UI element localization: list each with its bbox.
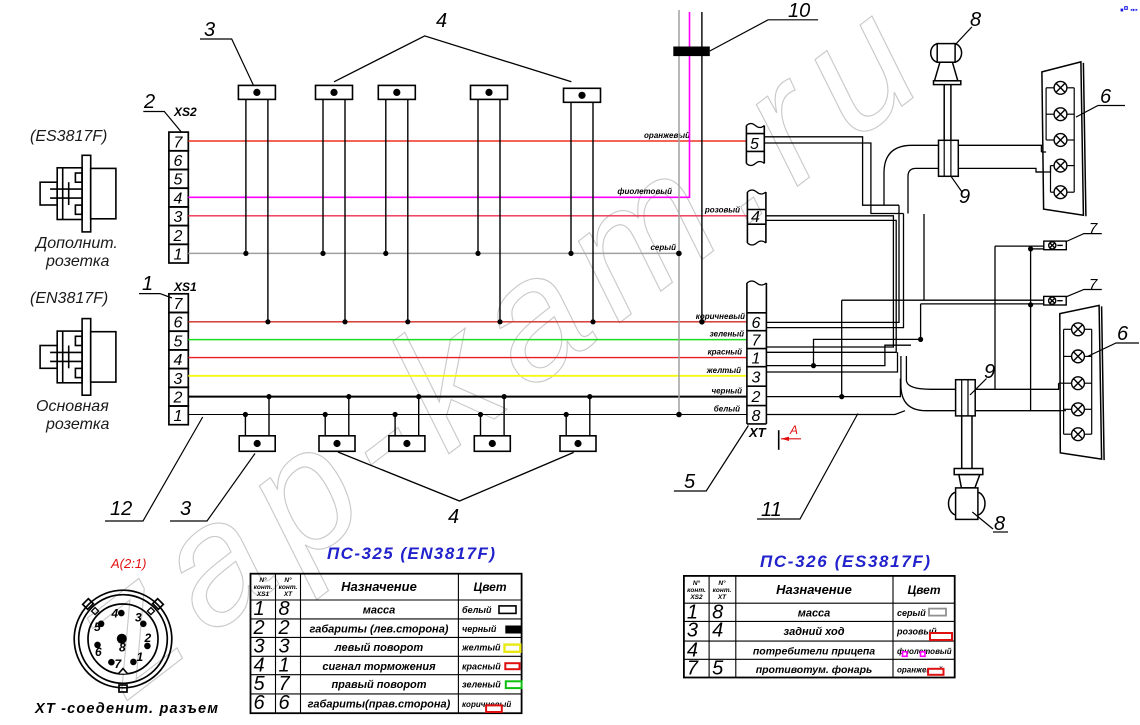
svg-text:конт.: конт. (279, 584, 298, 591)
leader 4 (top clamps V) (334, 36, 571, 82)
svg-text:5: 5 (174, 333, 183, 350)
svg-text:8: 8 (119, 641, 126, 655)
lamp item 7 (upper) (1044, 241, 1067, 250)
clamp item 4 (bottom row 3) (389, 394, 425, 451)
svg-text:красный: красный (708, 348, 743, 357)
lamp panel item 6 (bottom) (1060, 305, 1104, 460)
svg-text:черный: черный (462, 624, 497, 634)
leader 12 (to XS1 bottom) (105, 417, 203, 521)
svg-text:2: 2 (144, 631, 152, 645)
svg-text:черный: черный (711, 387, 742, 396)
svg-text:7: 7 (687, 658, 699, 680)
logo mark (blue) (1121, 6, 1138, 11)
svg-text:3: 3 (180, 498, 191, 520)
svg-text:фиолетовый: фиолетовый (617, 187, 672, 196)
svg-text:6: 6 (1117, 323, 1129, 345)
connector XT block (747, 283, 767, 424)
svg-text:противотум. фонарь: противотум. фонарь (756, 664, 873, 676)
svg-text:XS2: XS2 (689, 594, 703, 601)
svg-text:11: 11 (761, 499, 782, 521)
svg-text:3: 3 (174, 209, 183, 226)
svg-text:4: 4 (751, 209, 760, 226)
svg-text:оранжевый: оранжевый (644, 131, 690, 140)
svg-text:белый: белый (462, 605, 492, 615)
svg-text:7: 7 (1089, 220, 1098, 237)
svg-text:XT: XT (748, 425, 767, 440)
svg-text:желтый: желтый (706, 366, 741, 375)
socket icon ES3817F (Дополнит. розетка) (40, 155, 116, 232)
svg-text:1: 1 (142, 273, 153, 295)
svg-text:6: 6 (254, 692, 266, 714)
svg-text:масса: масса (798, 608, 831, 620)
svg-text:9: 9 (984, 361, 995, 383)
wire item9-top horizontals (912, 144, 939, 146)
clamp item 3 (top row 1) (238, 85, 275, 324)
svg-text:6: 6 (1100, 86, 1112, 108)
svg-text:3: 3 (204, 19, 215, 41)
svg-text:XS2: XS2 (173, 105, 197, 119)
wire lamp7-lower link (842, 299, 1044, 301)
svg-text:конт.: конт. (713, 587, 732, 594)
svg-text:Назначение: Назначение (341, 579, 417, 594)
clamp item 4 (top row 4) (471, 85, 508, 324)
svg-text:8: 8 (994, 513, 1005, 535)
svg-text:габариты (лев.сторона): габариты (лев.сторона) (310, 623, 449, 635)
svg-text:Основная: Основная (36, 398, 109, 415)
connector XS1 (169, 294, 188, 425)
svg-text:зеленый: зеленый (462, 680, 501, 690)
svg-text:Цвет: Цвет (473, 580, 506, 594)
svg-text:XT -соеденит. разъем: XT -соеденит. разъем (34, 701, 218, 717)
wire red (красный) XS1.4 to XT.1 (188, 357, 747, 359)
svg-text:N°: N° (284, 576, 292, 584)
clamp item 4 (top row 5) (564, 88, 601, 324)
svg-text:1: 1 (174, 247, 183, 264)
svg-text:5: 5 (712, 658, 724, 680)
leader 3 (bottom clamp) (170, 454, 255, 522)
svg-text:2: 2 (143, 91, 155, 113)
connector XT face view (74, 590, 172, 692)
svg-text:4: 4 (448, 506, 459, 528)
socket icon EN3817F (Основная розетка) (40, 319, 116, 396)
wire orange (оранжевый) XS2.7 to item5 (188, 140, 746, 142)
leader 10 (710, 20, 818, 51)
wire green (зеленый) XS1.5 to XT.7 (188, 339, 747, 341)
svg-text:3: 3 (687, 620, 698, 642)
section arrow A (778, 430, 780, 450)
svg-text:розовый: розовый (704, 206, 740, 215)
svg-text:4: 4 (712, 620, 723, 642)
wire item5 pair to bundle (764, 137, 899, 205)
wire XT.7 riser to lamp7 feed (814, 304, 921, 366)
svg-text:4: 4 (174, 190, 183, 207)
wire XT.6 pair up bundle (766, 205, 899, 322)
node: серый wire end dot (676, 251, 682, 257)
svg-text:3: 3 (135, 611, 142, 625)
svg-text:XS1: XS1 (173, 280, 197, 294)
svg-text:1: 1 (174, 408, 183, 425)
svg-text:конт.: конт. (254, 584, 273, 591)
svg-text:(EN3817F): (EN3817F) (30, 290, 108, 307)
svg-text:N°: N° (259, 576, 267, 584)
svg-text:Цвет: Цвет (907, 583, 940, 597)
svg-text:10: 10 (788, 0, 810, 22)
clamp item 4 (bottom row 2) (319, 394, 355, 451)
clamp item 3 (bottom row 1) (239, 394, 275, 451)
svg-text:4: 4 (174, 352, 183, 369)
svg-text:2: 2 (751, 389, 761, 406)
svg-text:задний ход: задний ход (783, 626, 844, 638)
svg-text:8: 8 (970, 9, 981, 31)
svg-text:Дополнит.: Дополнит. (34, 235, 118, 252)
svg-text:конт.: конт. (687, 587, 706, 594)
svg-text:Назначение: Назначение (776, 582, 852, 597)
svg-text:розетка: розетка (45, 253, 109, 270)
connector item 4 (ПС-326 lower block) (747, 192, 766, 243)
svg-text:розетка: розетка (45, 416, 109, 433)
svg-text:серый: серый (650, 243, 676, 252)
svg-text:6: 6 (279, 692, 291, 714)
svg-text:N°: N° (718, 579, 726, 587)
leader 3 (top clamp) (200, 39, 253, 85)
lamp item 7 (lower) (1044, 296, 1067, 305)
svg-text:левый поворот: левый поворот (334, 642, 424, 654)
svg-text:ПС-325 (EN3817F): ПС-325 (EN3817F) (327, 544, 495, 563)
svg-text:4: 4 (436, 10, 447, 32)
node: gray joins white wire (676, 412, 682, 418)
svg-text:3: 3 (174, 371, 183, 388)
wire XT.8 run joining lower elbow (766, 411, 905, 415)
junction item 9 (bottom) (956, 380, 976, 416)
wire black (черный) XS1.2 to XT.2 (188, 396, 747, 398)
wire riser x924 (923, 214, 925, 300)
wire item4 pair down bundle (766, 216, 894, 347)
clamp item 4 (bottom row 5) (560, 394, 596, 451)
clamp item 4 (bottom row 4) (474, 394, 510, 451)
svg-text:2: 2 (173, 228, 183, 245)
svg-text:масса: масса (363, 605, 396, 617)
svg-text:зеленый: зеленый (710, 330, 745, 339)
svg-text:7: 7 (174, 296, 184, 313)
svg-text:6: 6 (752, 315, 761, 332)
svg-text:3: 3 (752, 369, 761, 386)
wire yellow (желтый) XS1.3 to XT.3 (188, 375, 747, 377)
item 10 cable tie (black bar) (673, 47, 710, 57)
junction item 9 (top) (939, 140, 959, 176)
lamp panel item 6 (top) (1042, 62, 1086, 216)
svg-text:5: 5 (750, 136, 759, 153)
connector XS2 (169, 132, 188, 263)
svg-text:XS1: XS1 (256, 591, 270, 598)
svg-text:XT: XT (283, 591, 293, 598)
wire gray vertical bundle line (678, 10, 680, 415)
svg-text:правый поворот: правый поворот (331, 679, 426, 691)
svg-text:N°: N° (693, 579, 701, 587)
svg-text:XT: XT (717, 594, 727, 601)
svg-text:7: 7 (174, 134, 184, 151)
svg-text:6: 6 (95, 645, 102, 659)
svg-text:5: 5 (174, 172, 183, 189)
svg-text:12: 12 (110, 498, 132, 520)
wire pink (розовый) XS2.3 to item4 (188, 215, 747, 217)
wire black vertical bundle line (701, 12, 703, 322)
svg-text:1: 1 (137, 650, 144, 664)
svg-text:2: 2 (173, 390, 183, 407)
svg-text:ПС-326 (ES3817F): ПС-326 (ES3817F) (760, 552, 930, 571)
svg-text:6: 6 (174, 315, 183, 332)
wire XT.3 riser (766, 352, 897, 372)
svg-text:желтый: желтый (461, 642, 501, 652)
svg-text:потребители прицепа: потребители прицепа (753, 646, 875, 658)
node: black vertical joins brown wire (699, 319, 705, 325)
wire lamp7-lower feed vertical (841, 300, 843, 396)
wire XT.2 run (766, 379, 900, 397)
lamp item 8 (top) (931, 44, 962, 141)
svg-text:сигнал торможения: сигнал торможения (322, 661, 436, 673)
clamp item 4 (top row 2) (316, 85, 353, 324)
svg-text:9: 9 (959, 186, 970, 208)
wire elbow lower (to item9 bottom) (901, 356, 1060, 411)
wire gray (серый) XS2.1 (188, 252, 679, 254)
wire lamp7-upper link (994, 246, 996, 389)
svg-text:7: 7 (1089, 276, 1098, 293)
leader 1 (to XS1) (139, 294, 172, 298)
svg-text:6: 6 (174, 153, 183, 170)
svg-text:4: 4 (111, 607, 119, 621)
svg-text:7: 7 (752, 333, 762, 350)
leader 5 (to XT) (674, 426, 749, 492)
svg-text:красный: красный (462, 661, 501, 671)
wire white (белый) XS1.1 to XT.8 (188, 414, 747, 416)
svg-text:(ES3817F): (ES3817F) (30, 128, 107, 145)
svg-text:габариты(прав.сторона): габариты(прав.сторона) (308, 698, 451, 710)
svg-text:A(2:1): A(2:1) (110, 556, 146, 571)
connector item 5 (ПС-326 upper block) (746, 126, 764, 164)
svg-text:5: 5 (684, 471, 696, 493)
svg-text:5: 5 (94, 620, 101, 634)
leader 11 (757, 414, 858, 520)
lamp item 8 (bottom) (949, 416, 986, 520)
svg-text:белый: белый (714, 405, 740, 414)
wire XT.1 riser (766, 345, 911, 365)
svg-text:1: 1 (752, 351, 761, 368)
svg-text:серый: серый (897, 608, 926, 618)
svg-text:A: A (789, 423, 798, 437)
wire elbow upper (to item9 top) (884, 145, 912, 205)
clamp item 4 (top row 3) (378, 85, 415, 324)
wire violet (фиолетовый) XS2.4 (188, 12, 689, 197)
leader 4 (bottom clamps V) (338, 452, 574, 501)
wire brown (коричневый) XS1.6 to XT.6 (188, 321, 747, 323)
leader 2 (to XS2) (143, 112, 181, 133)
svg-text:8: 8 (752, 408, 761, 425)
